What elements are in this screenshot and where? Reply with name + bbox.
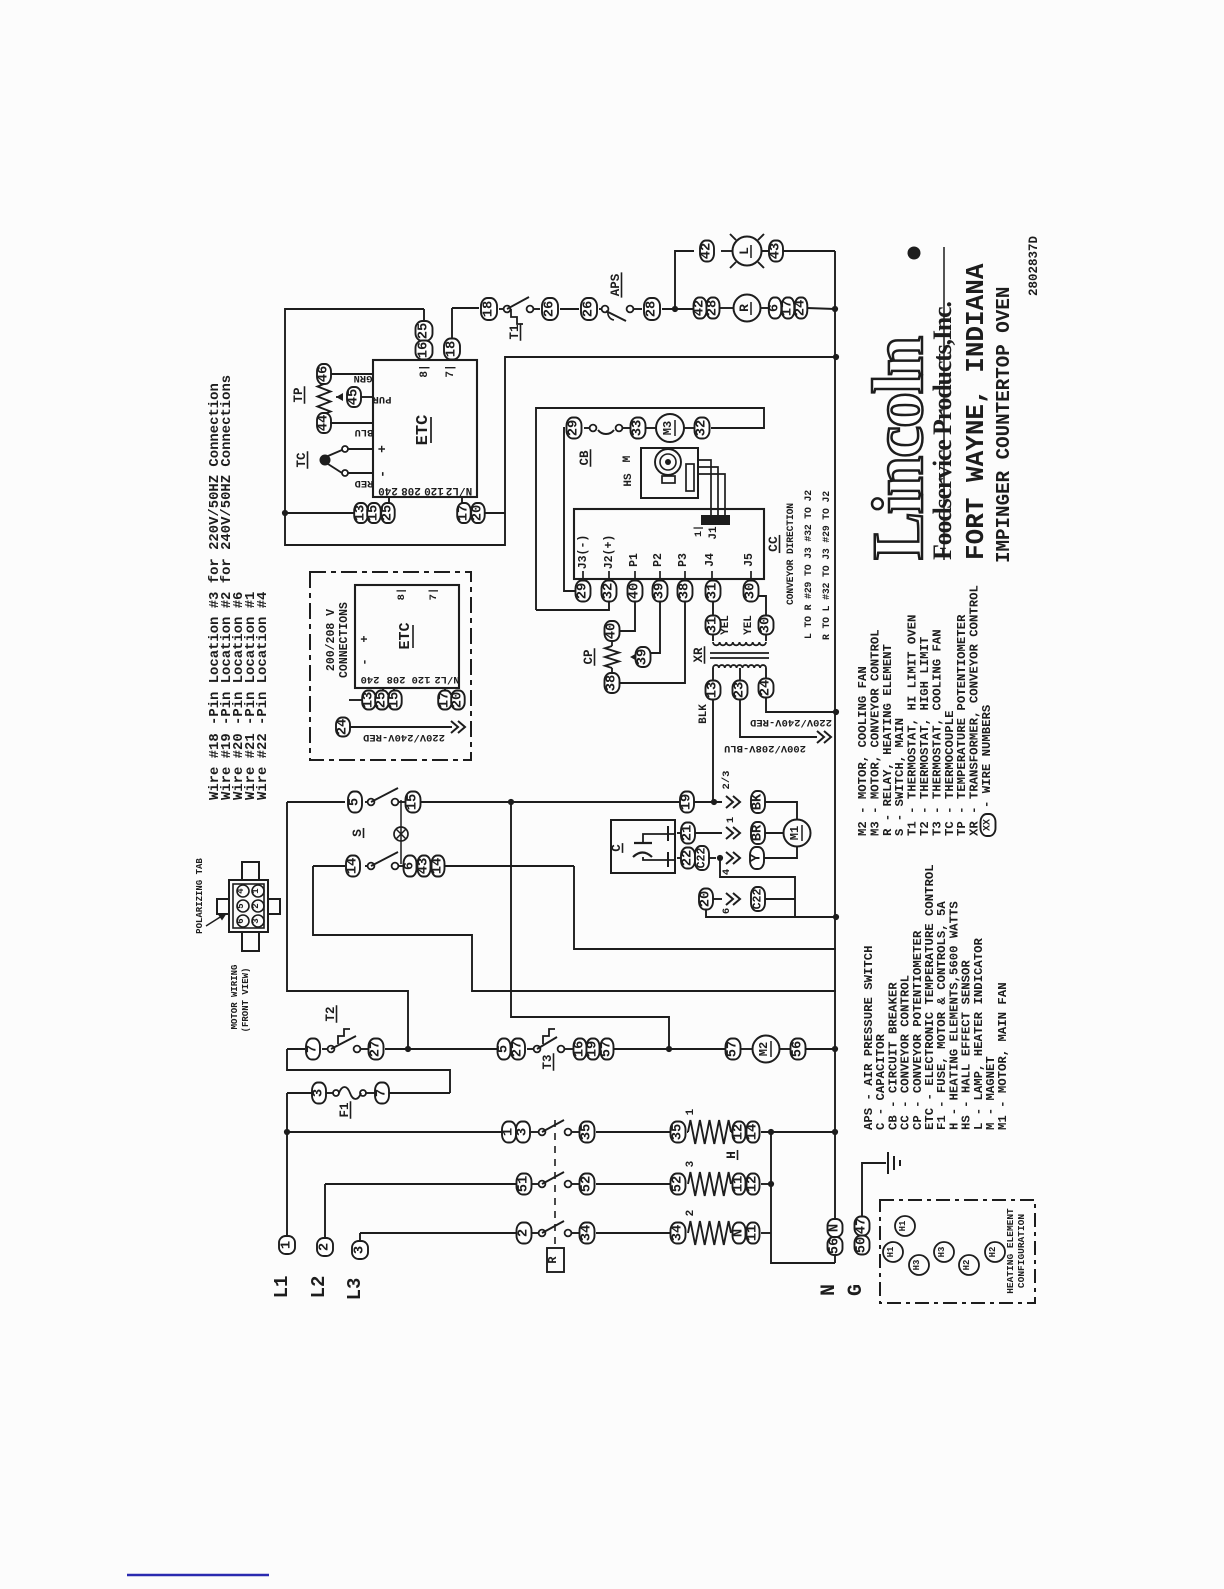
svg-text:4: 4 [721,869,733,875]
svg-text:J4: J4 [704,553,717,567]
svg-text:7|: 7| [428,588,440,601]
svg-text:FORT WAYNE, INDIANA: FORT WAYNE, INDIANA [961,263,991,560]
svg-text:L TO R #29 TO J3 #32 TO J2: L TO R #29 TO J3 #32 TO J2 [803,490,814,639]
wire label 31 J4 [706,581,721,602]
ground symbol [888,1152,900,1174]
wire T2 T3 M2 row [287,1048,835,1050]
connector pins [236,885,264,927]
label heating element configuration [1005,1208,1027,1294]
node junction M2 riser [666,1046,672,1052]
terminal L2 [308,1184,333,1298]
wire label 16 [416,341,433,360]
heating element H1 [688,1120,731,1144]
magnet M symbol [655,449,694,491]
air pressure switch APS [602,272,634,321]
element circle H3b [934,1242,954,1262]
wire heater row1 [287,1129,838,1135]
wire label 51 [517,1174,532,1195]
svg-text:2: 2 [517,1229,532,1237]
svg-text:14: 14 [346,858,361,875]
wire S feed down [287,802,408,1049]
wire label 14 [431,856,446,877]
svg-text:XX: XX [983,819,994,831]
svg-text:YEL: YEL [743,615,755,635]
wire 24 to bus 220V/240V-RED [750,697,839,728]
svg-text:P2: P2 [652,553,665,567]
element circle H2b [985,1242,1005,1262]
connector J1 bar [693,516,729,540]
wire label 16 [573,1039,588,1060]
svg-text:-: - [358,658,372,665]
svg-text:M: M [622,455,634,462]
wire label 13 [706,681,721,700]
svg-text:16: 16 [417,342,432,359]
wire label 57 [726,1039,741,1060]
wire label 15 [367,503,382,523]
wire T1 chain [452,308,694,309]
svg-text:45: 45 [347,389,362,406]
heating element H3 [688,1172,731,1196]
label H [724,1150,739,1160]
wire 14 return loop [313,866,836,991]
svg-text:12: 12 [732,1124,747,1141]
wire ETC1 N/L2 terminal [462,497,505,513]
wire S junction down to M2 row [511,802,669,1049]
node junction T2 row [405,1046,411,1052]
svg-text:2/3: 2/3 [721,771,733,790]
circuit breaker CB [578,425,622,467]
transformer XR [692,642,769,668]
svg-text:N: N [828,1224,843,1232]
svg-text:56: 56 [828,1238,843,1255]
wire label 30 [743,615,774,635]
svg-text:44: 44 [317,415,332,432]
node junction S row [508,799,514,805]
svg-text:BR: BR [751,824,766,841]
svg-text:6: 6 [403,862,418,870]
wire label 5 [348,792,363,813]
svg-text:+: + [358,635,372,642]
svg-text:1: 1 [502,1128,517,1136]
svg-text:IMPINGER COUNTERTOP OVEN: IMPINGER COUNTERTOP OVEN [993,287,1015,563]
svg-text:R: R [546,1256,560,1264]
wire label 25 [375,691,390,710]
svg-text:L1: L1 [271,1276,293,1299]
svg-text:N/L2: N/L2 [434,673,459,685]
ETC1 pin 8 [419,364,431,377]
svg-text:BLK: BLK [698,704,710,724]
wire label 42 [700,241,715,262]
thermostat T1 [504,297,534,341]
wire label 32 [695,418,710,439]
wire ETC1 240 terminal [388,497,390,504]
svg-text:1|: 1| [693,525,705,537]
svg-text:19: 19 [586,1041,601,1058]
svg-text:YEL: YEL [720,615,732,635]
wire label 6 [403,856,418,877]
wire P1 to 40 [619,601,635,631]
wire label 20 [471,503,486,523]
wire label 25 [381,503,396,523]
wire label 35 [671,1122,686,1143]
wire label 23 [733,681,748,700]
CC pin ticks [583,571,751,581]
wire HS to J1 [698,460,725,516]
svg-text:57: 57 [726,1041,741,1058]
wire 19 row BK [711,799,717,805]
svg-text:3: 3 [251,918,261,923]
svg-text:M2: M2 [757,1042,771,1056]
svg-text:27: 27 [511,1041,526,1058]
relay R actuator link [546,1120,564,1272]
svg-text:52: 52 [671,1176,686,1193]
svg-text:J5: J5 [743,553,756,567]
svg-text:50: 50 [855,1237,870,1254]
wire 23 arrow 200V/208V-BLU [724,699,831,754]
label Fort Wayne Indiana [961,263,991,560]
svg-text:N: N [818,1284,841,1296]
motor M2 cooling fan [753,1036,780,1063]
svg-text:18: 18 [482,301,497,318]
ETC2 240 terminal wire [349,688,394,700]
dashed box heating element configuration [880,1200,1035,1303]
terminal L3 [344,1233,368,1300]
wire label 38 [605,673,620,693]
svg-text:52: 52 [580,1176,595,1193]
wire label 19 [680,792,695,813]
svg-text:GRN: GRN [354,372,373,384]
wire label 15 [406,792,421,813]
wire label 52 [671,1174,686,1195]
fuse F1 [333,1087,366,1119]
wire 14 right to bus [574,866,836,949]
svg-text:240: 240 [361,673,380,685]
label CC conveyor direction [766,490,832,640]
svg-text:M1 - MOTOR, MAIN FAN: M1 - MOTOR, MAIN FAN [996,982,1010,1130]
wire T2 to F1 loop [287,1049,450,1093]
wire ETC1 pin7 [451,308,453,360]
wire 13 BLK down [698,699,713,801]
svg-text:(FRONT VIEW): (FRONT VIEW) [241,968,251,1033]
ETC1 plus minus [375,445,390,478]
svg-text:HS: HS [623,473,635,487]
relay contact R1 [539,1120,572,1135]
svg-text:39: 39 [636,649,651,666]
wire ETC1 pin8 to bus [423,309,425,360]
svg-text:R: R [737,304,752,312]
node junction lamp branch [672,306,678,312]
svg-text:8|: 8| [419,364,431,377]
conveyor potentiometer CP [582,641,638,674]
svg-text:4: 4 [236,888,246,894]
capacitor C box [610,820,675,873]
wire label 56 [791,1039,806,1060]
wire P2 to 39 [650,601,660,653]
svg-text:H2: H2 [988,1247,998,1258]
svg-text:+: + [375,445,390,453]
svg-text:J3(-): J3(-) [577,535,590,570]
heating element H2 [688,1221,731,1245]
wire P3 to 38 [619,601,685,683]
svg-text:CONFIGURATION: CONFIGURATION [1016,1214,1027,1288]
svg-text:5: 5 [236,903,246,908]
element circle H2a [959,1255,979,1275]
svg-text:30: 30 [744,583,759,600]
wire label 30 J5 [744,581,759,602]
note wire pin locations [207,383,223,800]
svg-text:43: 43 [417,858,432,875]
svg-text:25: 25 [417,323,432,340]
wire 20 row C22 [706,893,839,920]
wire label 34 [671,1223,686,1244]
wire J2 to loop [536,601,609,610]
svg-text:7: 7 [306,1045,321,1053]
svg-text:26: 26 [582,301,597,318]
svg-text:L: L [737,247,752,255]
wire label 46 [317,364,332,384]
legend component list M2-XR [856,666,870,836]
wire label 24 [794,298,809,319]
terminal G [845,1163,886,1296]
wire label 32 J2 [602,581,617,602]
wire CB loop [536,408,764,610]
svg-text:23: 23 [733,682,748,699]
wire label 27 [369,1039,384,1060]
svg-text:C22: C22 [696,848,709,869]
wire J5 to XR [758,596,766,641]
XR primary taps [713,668,766,681]
element circle H3a [909,1255,929,1275]
svg-text:7|: 7| [445,364,457,377]
terminal L1 [271,1132,295,1298]
svg-text:35: 35 [671,1124,686,1141]
svg-text:20: 20 [451,692,466,709]
svg-text:CONNECTIONS: CONNECTIONS [338,602,351,678]
thermostat T2 [324,1005,360,1052]
svg-text:3: 3 [685,1160,697,1167]
svg-text:1: 1 [251,888,261,894]
svg-text:6: 6 [236,918,246,923]
svg-text:1: 1 [725,817,737,823]
ETC1 pin 7 [445,364,457,377]
wire label 14 [746,1122,761,1143]
svg-text:N: N [732,1229,747,1237]
svg-text:24: 24 [336,719,351,736]
wire label 19 [586,1039,601,1060]
thermostat T3 [534,1029,565,1071]
wire label C22 [751,887,765,911]
wire label 45 [347,387,392,407]
svg-text:3: 3 [312,1089,327,1097]
wire label 14 [346,856,361,877]
potentiometer TP [292,384,343,414]
ETC controller U-ETC2 [355,585,459,688]
svg-text:32: 32 [602,583,617,600]
svg-text:MOTOR WIRING: MOTOR WIRING [230,965,240,1030]
relay contact R2 [539,1172,572,1187]
wire heater row2 [325,1181,774,1187]
svg-text:57: 57 [600,1041,615,1058]
svg-text:6: 6 [721,908,733,914]
wire label 17 [781,298,796,319]
svg-text:43: 43 [769,243,784,260]
svg-text:HEATING ELEMENT: HEATING ELEMENT [1005,1208,1016,1294]
relay coil R [734,295,761,322]
svg-text:29: 29 [576,583,591,600]
svg-text:5: 5 [348,798,363,806]
logo Lincoln [858,247,938,561]
conveyor control CC box [574,509,764,579]
legend wire numbers symbol [980,705,996,836]
svg-text:7: 7 [375,1089,390,1097]
svg-text:17: 17 [457,505,472,522]
svg-text:2: 2 [318,1243,333,1251]
svg-text:C22: C22 [752,889,765,910]
wire F1 row [287,1092,450,1094]
svg-text:M3: M3 [661,421,675,435]
svg-text:39: 39 [653,583,668,600]
wire label 18 [444,339,460,360]
dashed box 200/208V connections [310,572,471,760]
svg-text:CONVEYOR DIRECTION: CONVEYOR DIRECTION [785,503,796,605]
svg-text:21: 21 [681,825,696,842]
svg-text:14: 14 [431,858,446,875]
svg-text:G: G [845,1284,868,1296]
wire label BR [751,822,766,844]
svg-text:P3: P3 [677,553,690,567]
terminal N [818,1219,843,1296]
wire label 44 [317,413,374,438]
svg-text:25: 25 [381,505,396,522]
wire label 25 [416,321,433,341]
wire label 18 [481,298,497,320]
svg-text:Wire #22 -Pin Location #4: Wire #22 -Pin Location #4 [255,592,271,800]
wire label 33 [631,418,646,439]
svg-text:200V/208V-BLU: 200V/208V-BLU [724,742,806,754]
node junction R row bus [832,306,838,312]
node junction bus y357 [833,354,839,360]
wire label 42 [693,298,708,319]
svg-text:30: 30 [759,617,774,634]
svg-text:- WIRE NUMBERS: - WIRE NUMBERS [980,705,994,808]
svg-text:34: 34 [580,1225,595,1242]
svg-text:220V/240V-RED: 220V/240V-RED [363,731,445,743]
svg-text:220V/240V-RED: 220V/240V-RED [750,716,832,728]
element circle H1a [895,1216,915,1236]
ETC2 N/L2 terminal wire [444,688,446,692]
motor M1 main fan [784,820,811,847]
svg-text:RED: RED [355,477,374,489]
svg-text:27: 27 [369,1041,384,1058]
wire 22 bypass down [720,858,795,917]
svg-text:J1: J1 [708,526,720,540]
ETC2 terminal labels [361,673,460,685]
wire label 12 [746,1174,761,1195]
svg-text:2802837D: 2802837D [1027,235,1041,296]
wire label 21 [681,823,696,844]
wire label 39 [636,647,651,667]
svg-text:31: 31 [706,617,721,634]
label drawing number 2802837D [1027,235,1041,296]
svg-text:26: 26 [543,301,558,318]
svg-text:3: 3 [353,1246,368,1254]
page artifact line [127,1574,269,1576]
wire label 20 [451,691,466,710]
wire F1 to L1 junction [284,1093,290,1135]
svg-text:11: 11 [746,1225,761,1242]
svg-text:200/208 V: 200/208 V [325,609,338,671]
hall effect sensor HS box [622,448,698,498]
wire label 27 [511,1039,526,1060]
wire label 3 [312,1083,327,1104]
svg-text:40: 40 [605,623,620,640]
wire label C22 [695,846,709,870]
label Impinger Countertop Oven [993,287,1015,563]
svg-text:R TO L #32 TO J3 #29 TO J2: R TO L #32 TO J3 #29 TO J2 [821,491,832,640]
ETC controller U-ETC1 [373,360,477,497]
svg-text:38: 38 [678,583,693,600]
svg-text:208: 208 [401,484,421,496]
svg-text:L2: L2 [308,1276,330,1299]
wire lamp branch [675,251,835,309]
wire S pole2 row [313,865,574,867]
wire label 7 [306,1039,321,1060]
svg-text:47: 47 [855,1218,870,1235]
ETC2 pins 8 7 [396,588,440,601]
svg-text:32: 32 [695,420,710,437]
svg-text:M1: M1 [788,826,802,840]
main switch S pole2 [368,852,399,869]
wire J4 to XR [712,601,714,641]
svg-text:28: 28 [645,301,660,318]
svg-text:208: 208 [387,673,406,685]
svg-text:N/L2: N/L2 [446,484,472,496]
wire label Y [750,847,765,869]
arrow 220V/240V-RED [336,718,466,744]
wire label 13 [354,503,369,523]
wire label 13 [362,691,377,710]
wire label 52 [580,1174,595,1195]
wire 13 to feed [285,512,354,514]
svg-text:2: 2 [685,1210,697,1217]
wire label 11 [746,1223,761,1244]
wire 21 row BR [677,817,784,839]
node junction x287 y513 [282,510,288,516]
svg-text:POLARIZING TAB: POLARIZING TAB [195,858,205,934]
svg-text:38: 38 [605,675,620,692]
svg-text:BLU: BLU [355,426,374,438]
wire label 15 [388,691,403,710]
svg-text:15: 15 [388,692,403,709]
element circle H1b [883,1242,903,1262]
wire label BK [751,791,798,819]
wire N bus vertical [834,251,836,1220]
svg-text:24: 24 [759,680,774,697]
svg-text:51: 51 [517,1176,532,1193]
svg-text:1: 1 [685,1108,697,1115]
wire label 26 [581,298,597,320]
svg-text:15: 15 [367,505,382,522]
motor M3 conveyor [656,414,684,442]
wire label 40 P1 [628,581,643,602]
node junction M2 bus [832,1046,838,1052]
svg-text:5: 5 [497,1045,512,1053]
wire label 11 [732,1174,747,1195]
svg-text:31: 31 [706,583,721,600]
svg-text:15: 15 [406,794,421,811]
wire label 38 P3 [678,581,693,602]
svg-text:Y: Y [750,853,765,862]
